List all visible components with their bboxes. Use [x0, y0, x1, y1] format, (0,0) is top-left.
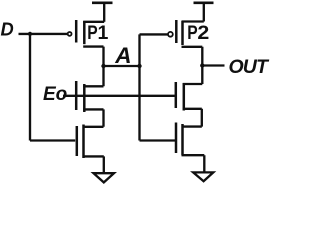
wire P1 drain lead: [83, 47, 103, 66]
ground symbol stage 1: [94, 173, 115, 182]
wire node A rail up to P2 gate: [140, 34, 168, 66]
wire N2 drain lead: [83, 126, 104, 128]
transistor N2 gate bar: [76, 126, 79, 156]
svg-text:A: A: [114, 43, 131, 68]
svg-text:P: P: [187, 21, 198, 43]
wire D input: [19, 33, 68, 35]
wire VDD stub to P2 source: [203, 3, 205, 22]
wire N1 source lead: [83, 109, 103, 126]
transistor N1 gate bar: [75, 81, 78, 110]
junction node D rail: [28, 32, 32, 36]
svg-text:P: P: [87, 22, 98, 44]
transistor N2 channel bar: [82, 125, 85, 159]
svg-text:2: 2: [197, 22, 209, 44]
transistor P2 channel bar: [181, 21, 184, 45]
transistor P1 gate bubble: [68, 32, 72, 36]
wire left rail from D down: [30, 34, 75, 141]
transistor P1 channel bar: [83, 21, 86, 44]
wire N1 drain lead: [83, 66, 103, 86]
wire N3 drain lead: [183, 66, 203, 85]
transistor N1 channel bar: [83, 84, 86, 112]
junction node A left: [101, 64, 105, 68]
VDD supply bar stage 1: [92, 1, 113, 4]
wire P2 source lead: [182, 20, 204, 22]
wire P2 drain lead: [182, 47, 203, 66]
wire node A horizontal: [104, 65, 140, 67]
svg-text:Eo: Eo: [43, 84, 67, 105]
transistor P2 gate bubble: [168, 32, 173, 37]
wire N4 drain lead: [182, 125, 202, 127]
transistor N3 gate bar: [175, 82, 178, 108]
svg-text:D: D: [1, 19, 14, 40]
wire N2 source lead to ground: [83, 156, 104, 172]
transistor P1 gate bar: [75, 20, 78, 43]
junction node OUT: [200, 63, 204, 67]
wire P1 source lead: [83, 21, 104, 23]
svg-text:1: 1: [98, 22, 109, 44]
wire node A rail down to N4 gate: [140, 66, 176, 141]
transistor N4 channel bar: [181, 124, 184, 155]
wire Eo line through to N3 gate: [63, 95, 175, 97]
ground symbol stage 2: [193, 172, 213, 181]
svg-text:OUT: OUT: [229, 56, 270, 78]
transistor N4 gate bar: [175, 123, 178, 154]
VDD supply bar stage 2: [194, 1, 214, 4]
wire VDD stub to P1 source: [103, 3, 105, 22]
transistor N3 channel bar: [183, 83, 186, 111]
wire N4 source lead to ground: [182, 155, 205, 172]
transistor P2 gate bar: [175, 20, 178, 43]
wire N3 source lead: [183, 109, 202, 127]
wire OUT: [202, 64, 224, 66]
junction node A right: [137, 64, 141, 68]
